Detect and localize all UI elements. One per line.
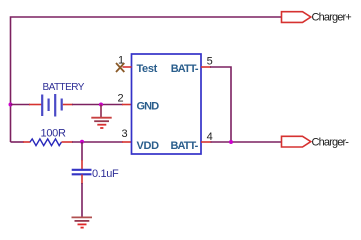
node pin4 junction dot: [229, 140, 233, 144]
svg-text:BATT-: BATT-: [171, 63, 199, 75]
node capacitor junction dot: [80, 140, 84, 144]
svg-text:5: 5: [207, 55, 213, 67]
svg-text:0.1uF: 0.1uF: [92, 168, 119, 180]
no-connect X on pin 1: [116, 63, 124, 72]
wire ground stem at GND node: [100, 105, 102, 118]
svg-text:VDD: VDD: [137, 140, 160, 152]
battery BT1 left pin: [29, 104, 42, 106]
svg-text:Charger-: Charger-: [312, 136, 350, 148]
svg-text:BATTERY: BATTERY: [43, 82, 85, 93]
op-amp U1 body rectangle: [132, 54, 202, 154]
battery BT1 plates BATTERY: [42, 94, 62, 117]
pin 2 stub of U1: [122, 104, 132, 106]
wire resistor row left segment: [11, 141, 25, 143]
capacitor C1 plates 0.1uF: [72, 170, 92, 175]
svg-text:3: 3: [121, 128, 127, 140]
ground symbol below capacitor: [72, 217, 93, 227]
pin 1 stub of U1: [123, 66, 132, 68]
resistor R1 zigzag 100R: [30, 139, 62, 146]
capacitor C1 bottom pin: [81, 175, 83, 185]
svg-text:GND: GND: [137, 101, 160, 113]
pin 4 stub of U1: [201, 141, 212, 143]
connector Charger- port symbol: [282, 136, 311, 147]
node battery+ junction dot: [9, 103, 13, 107]
pin 3 stub of U1: [122, 141, 132, 143]
wire battery row right segment to pin 2: [72, 104, 123, 106]
battery BT1 right pin: [63, 104, 73, 106]
resistor R1 right pin: [62, 141, 74, 143]
capacitor C1 top pin: [81, 160, 83, 170]
svg-text:100R: 100R: [41, 128, 66, 140]
wire capacitor stem upper: [81, 142, 83, 161]
svg-text:Test: Test: [137, 63, 158, 75]
svg-text:2: 2: [117, 93, 123, 105]
svg-text:BATT-: BATT-: [171, 140, 199, 152]
svg-text:Charger+: Charger+: [312, 12, 352, 24]
wire pin5 to pin4 row: [210, 67, 231, 142]
wire capacitor stem lower to ground: [81, 183, 83, 217]
wire top rail from battery+ to Charger+: [11, 17, 282, 142]
wire resistor row right segment to pin 3: [72, 141, 123, 143]
pin 5 stub of U1: [201, 66, 211, 68]
wire pin4 row to Charger-: [211, 141, 282, 143]
resistor R1 left pin: [23, 141, 31, 143]
wire battery row left segment: [11, 104, 31, 106]
node GND junction dot: [99, 103, 103, 107]
ground symbol at GND node: [91, 118, 111, 128]
connector Charger+ port symbol: [282, 12, 311, 23]
